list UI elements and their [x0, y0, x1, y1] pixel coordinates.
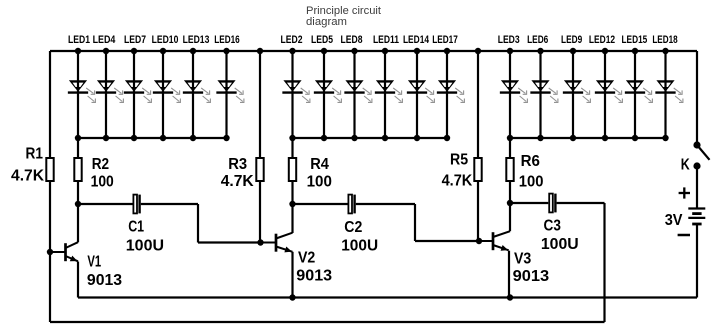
svg-text:LED3: LED3 [498, 34, 520, 46]
svg-text:LED2: LED2 [281, 34, 303, 46]
svg-text:R4: R4 [310, 156, 329, 173]
svg-text:R2: R2 [92, 156, 109, 173]
svg-text:100: 100 [91, 173, 114, 190]
svg-text:100: 100 [307, 174, 332, 191]
svg-text:C3: C3 [544, 218, 561, 235]
svg-text:C1: C1 [128, 219, 144, 236]
svg-text:V1: V1 [87, 254, 101, 271]
svg-text:R1: R1 [26, 146, 43, 163]
svg-text:V3: V3 [514, 250, 531, 267]
svg-text:V2: V2 [298, 249, 315, 266]
svg-text:9013: 9013 [296, 267, 332, 284]
svg-text:3V: 3V [665, 212, 683, 229]
svg-text:100: 100 [519, 173, 544, 190]
svg-text:LED15: LED15 [622, 34, 648, 46]
svg-text:LED17: LED17 [432, 34, 458, 46]
svg-text:100U: 100U [126, 237, 164, 254]
svg-text:LED14: LED14 [403, 34, 430, 46]
svg-text:LED10: LED10 [152, 34, 179, 46]
svg-text:4.7K: 4.7K [221, 173, 254, 190]
svg-text:4.7K: 4.7K [11, 167, 44, 184]
svg-text:LED11: LED11 [373, 34, 399, 46]
svg-text:LED7: LED7 [124, 34, 146, 46]
svg-text:LED8: LED8 [341, 34, 363, 46]
svg-text:LED9: LED9 [561, 34, 582, 46]
svg-text:LED4: LED4 [93, 34, 117, 46]
svg-text:K: K [681, 156, 690, 173]
svg-text:LED13: LED13 [183, 34, 210, 46]
svg-text:100U: 100U [541, 236, 579, 253]
svg-text:diagram: diagram [306, 16, 347, 28]
svg-text:LED1: LED1 [68, 34, 90, 46]
svg-text:LED6: LED6 [527, 34, 548, 46]
svg-text:4.7K: 4.7K [442, 173, 473, 190]
svg-text:R5: R5 [450, 152, 468, 169]
svg-text:9013: 9013 [87, 272, 122, 289]
svg-text:R3: R3 [228, 156, 247, 173]
svg-text:C2: C2 [344, 219, 362, 236]
svg-text:LED5: LED5 [311, 34, 333, 46]
svg-text:9013: 9013 [513, 268, 550, 285]
svg-text:LED12: LED12 [589, 34, 615, 46]
svg-text:LED16: LED16 [214, 34, 240, 46]
svg-text:LED18: LED18 [652, 34, 677, 46]
svg-text:100U: 100U [341, 237, 378, 254]
svg-text:R6: R6 [521, 153, 540, 170]
svg-text:Principle circuit: Principle circuit [306, 5, 382, 17]
